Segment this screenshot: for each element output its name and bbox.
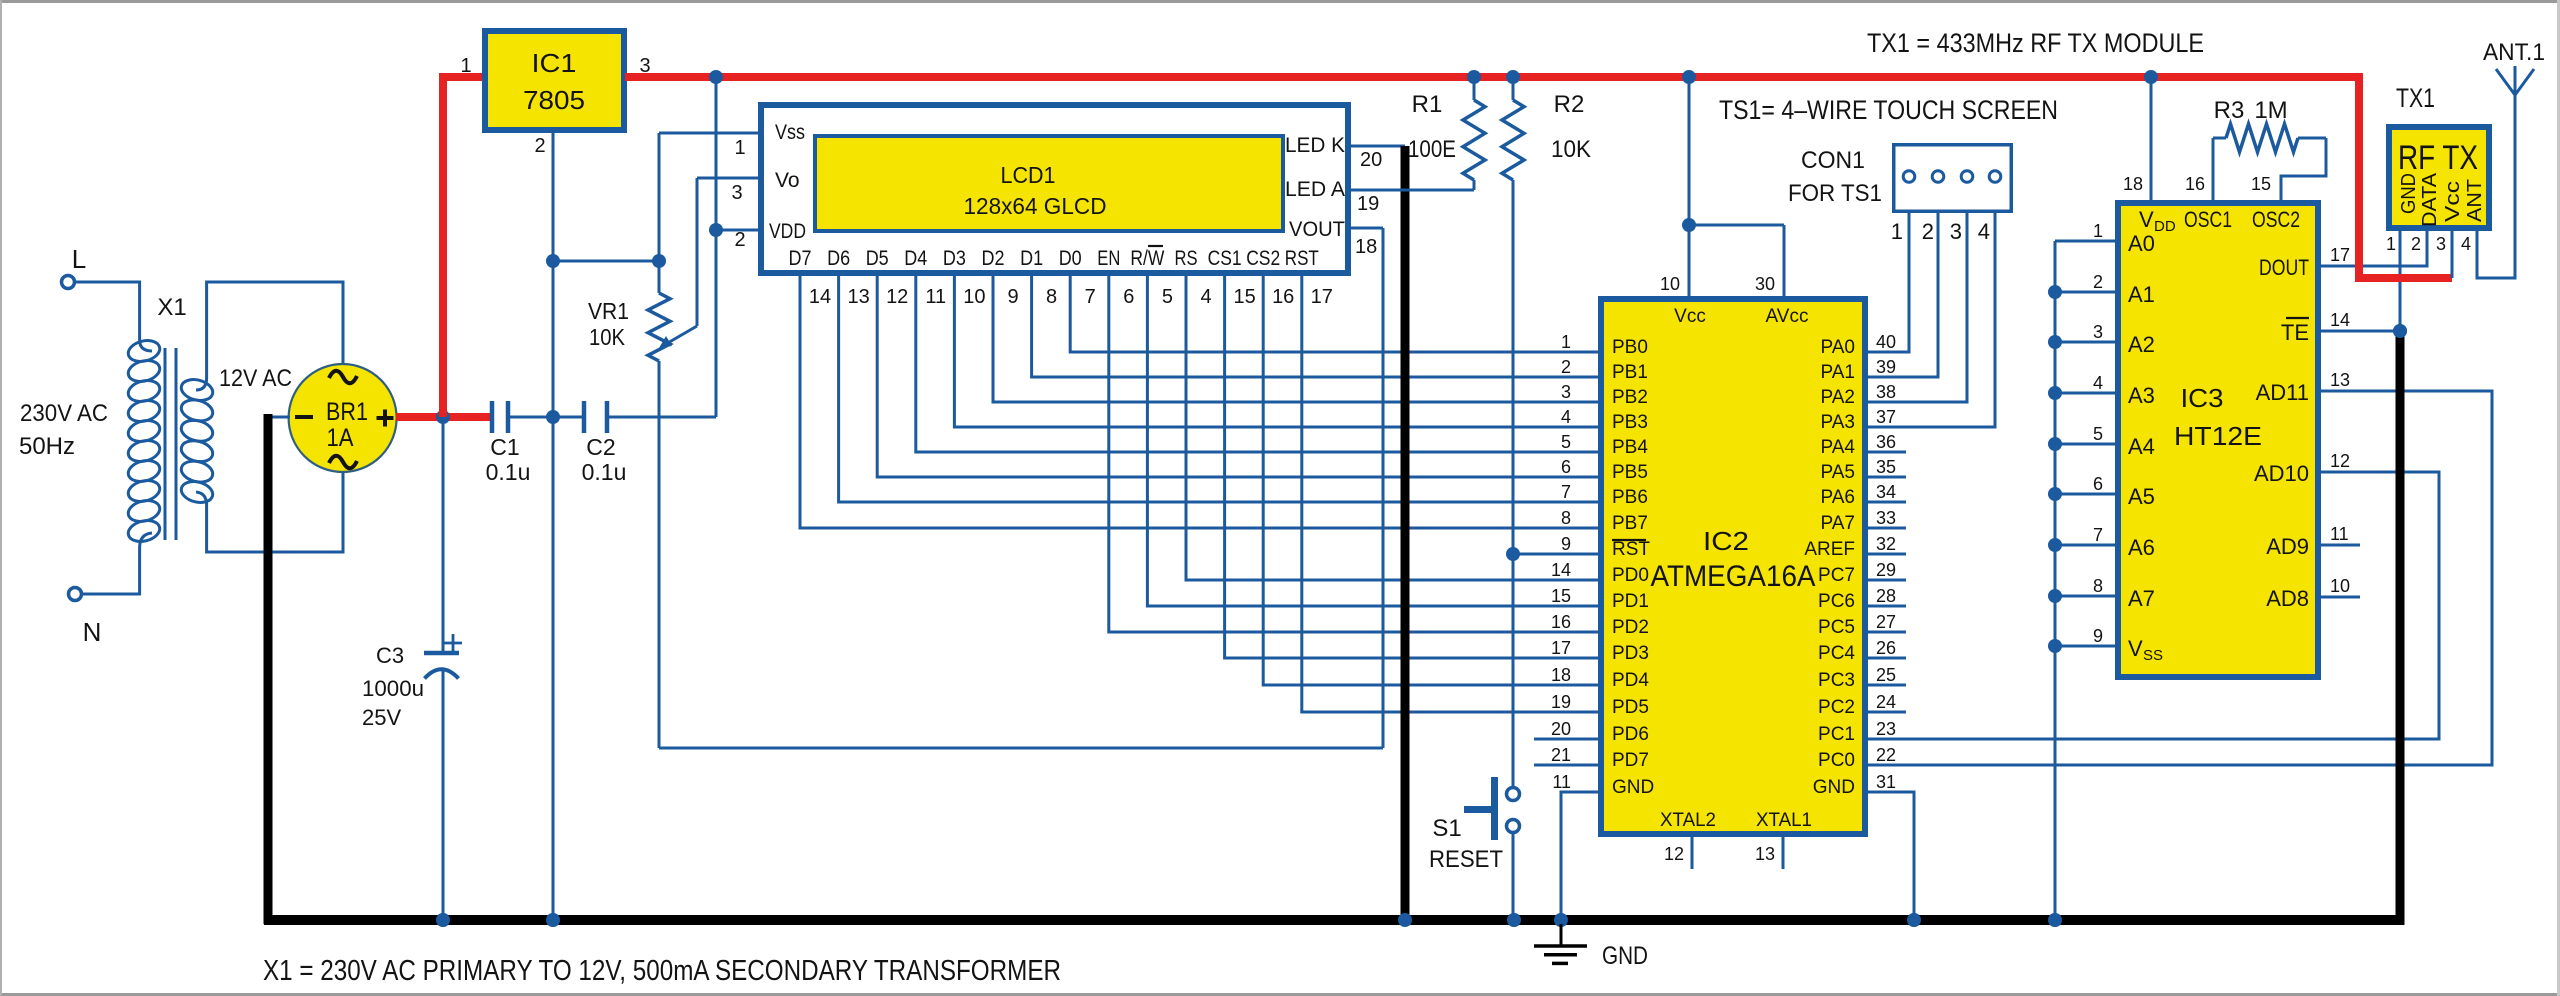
- svg-text:ATMEGA16A: ATMEGA16A: [1651, 560, 1816, 593]
- junction bus at gnd rail: [2048, 913, 2062, 927]
- ground wire vertical from LED K (black): [1401, 146, 1410, 920]
- junction TE gnd: [2393, 324, 2407, 338]
- svg-text:PD1: PD1: [1612, 591, 1649, 612]
- svg-text:PD2: PD2: [1612, 617, 1649, 638]
- svg-text:17: 17: [2330, 245, 2350, 265]
- capacitor C1: [486, 401, 553, 485]
- wire TX1 GND pin to TE node (blue): [2399, 231, 2402, 331]
- svg-text:Vo: Vo: [775, 169, 800, 192]
- svg-text:18: 18: [2123, 174, 2143, 194]
- svg-text:2: 2: [2093, 272, 2103, 292]
- svg-text:4: 4: [2093, 373, 2103, 393]
- svg-text:C3: C3: [376, 643, 404, 668]
- svg-text:D2: D2: [982, 247, 1005, 270]
- svg-text:SS: SS: [2143, 647, 2163, 664]
- svg-text:XTAL2: XTAL2: [1660, 810, 1716, 831]
- encoder IC3 HT12E: [2118, 203, 2318, 677]
- wire RST node to IC2 pin 9: [1513, 553, 1601, 556]
- svg-text:14: 14: [809, 286, 831, 308]
- svg-text:1000u: 1000u: [362, 676, 424, 701]
- svg-text:18: 18: [1551, 665, 1571, 685]
- resistor R2 10K: [1502, 77, 1591, 554]
- svg-text:PB1: PB1: [1612, 362, 1648, 383]
- junction bus A3: [2048, 386, 2062, 400]
- junction +5V rail at IC3 VDD: [2144, 70, 2158, 84]
- svg-text:1: 1: [1891, 219, 1903, 244]
- svg-text:PB0: PB0: [1612, 337, 1648, 358]
- junction gnd rail IC2 pin11: [1554, 913, 1568, 927]
- wire IC3 A4 to bus: [2055, 443, 2118, 446]
- junction TE on gnd line (redraw): [2393, 324, 2407, 338]
- svg-text:16: 16: [1272, 286, 1294, 308]
- svg-text:LCD1: LCD1: [1001, 162, 1056, 188]
- junction BR1+ node: [436, 410, 450, 424]
- ground rail (black): [264, 915, 2404, 925]
- svg-text:23: 23: [1876, 719, 1896, 739]
- bridge rectifier BR1: [289, 364, 397, 472]
- svg-text:7: 7: [1561, 482, 1571, 502]
- svg-text:12V AC: 12V AC: [219, 365, 292, 392]
- svg-text:10K: 10K: [1551, 136, 1591, 163]
- IC3 right pin labels: [2254, 245, 2350, 611]
- wire CON1 pin4 to IC2 PA3: [1865, 213, 1995, 427]
- wire LCD D5 to PB5: [877, 276, 1601, 477]
- svg-text:D1: D1: [1020, 247, 1043, 270]
- wire IC2 GND pin 11 to rail: [1561, 792, 1601, 920]
- svg-text:A2: A2: [2128, 332, 2155, 357]
- svg-text:OSC2: OSC2: [2252, 207, 2300, 232]
- svg-text:11: 11: [1552, 772, 1571, 792]
- svg-text:15: 15: [2251, 174, 2271, 194]
- svg-text:TX1: TX1: [2396, 83, 2435, 113]
- svg-text:PD4: PD4: [1612, 670, 1649, 691]
- svg-text:AREF: AREF: [1804, 539, 1855, 560]
- svg-text:18: 18: [1355, 236, 1377, 258]
- svg-text:2: 2: [1922, 219, 1934, 244]
- svg-text:7: 7: [2093, 525, 2103, 545]
- wire LCD D6 to PB6: [839, 276, 1601, 502]
- junction gnd rail at black LCD line: [1398, 913, 1412, 927]
- svg-text:16: 16: [2185, 174, 2205, 194]
- svg-text:PA2: PA2: [1820, 387, 1855, 408]
- svg-text:TS1= 4–WIRE TOUCH SCREEN: TS1= 4–WIRE TOUCH SCREEN: [1719, 95, 2058, 125]
- svg-text:AD8: AD8: [2266, 586, 2309, 611]
- svg-text:PC6: PC6: [1818, 591, 1855, 612]
- wire LCD D4 to PB4: [916, 276, 1601, 452]
- junction R2 top on +5V rail: [1506, 70, 1520, 84]
- wire IC3 A2 to bus: [2055, 341, 2118, 344]
- wire gnd to VR1 top: [553, 260, 659, 263]
- svg-text:10: 10: [2330, 576, 2350, 596]
- connector CON1 for TS1: [1788, 145, 2011, 244]
- red wire BR1+ up to IC1 pin 1: [439, 73, 484, 417]
- capacitor C3 electrolytic: [362, 417, 462, 920]
- svg-text:VDD: VDD: [769, 220, 806, 243]
- svg-text:PB4: PB4: [1612, 437, 1648, 458]
- junction dots on gnd rail: [436, 913, 2062, 927]
- svg-text:PB3: PB3: [1612, 412, 1648, 433]
- svg-text:10: 10: [1660, 274, 1680, 294]
- microcontroller IC2 ATMEGA16A: [1601, 299, 1865, 834]
- +5V red rail from IC1 pin 3: [625, 73, 2359, 81]
- LCD left pin labels: [731, 121, 806, 251]
- svg-text:DD: DD: [2154, 218, 2176, 235]
- svg-text:A4: A4: [2128, 434, 2155, 459]
- svg-text:50Hz: 50Hz: [19, 433, 75, 460]
- wire A-line ground bus: [2054, 241, 2057, 920]
- svg-text:PD3: PD3: [1612, 643, 1649, 664]
- wire CON1 pin2 to IC2 PA1: [1865, 213, 1938, 377]
- svg-text:28: 28: [1876, 586, 1896, 606]
- svg-text:13: 13: [1755, 844, 1775, 864]
- terminal L: [62, 244, 87, 289]
- svg-text:AD11: AD11: [2256, 380, 2309, 405]
- svg-text:7805: 7805: [523, 85, 585, 115]
- svg-text:RST: RST: [1285, 247, 1319, 270]
- svg-text:39: 39: [1876, 357, 1896, 377]
- svg-text:VOUT: VOUT: [1289, 218, 1345, 241]
- IC3 stub AD8: [2321, 596, 2360, 599]
- svg-text:PD5: PD5: [1612, 697, 1649, 718]
- svg-text:PC7: PC7: [1818, 565, 1855, 586]
- IC2 stubs right nc pins: [1865, 452, 1906, 712]
- junction VDD node: [709, 223, 723, 237]
- wire L to transformer primary: [75, 282, 140, 340]
- wire IC3 AD10 to IC2 PC1: [1865, 472, 2439, 739]
- junction RST node: [1506, 547, 1520, 561]
- wire BR1 plus to node (red): [396, 413, 492, 421]
- svg-text:CS1: CS1: [1208, 247, 1242, 270]
- svg-text:34: 34: [1876, 482, 1896, 502]
- svg-text:230V AC: 230V AC: [20, 400, 108, 427]
- ground wire TX1 GND down (black): [2396, 331, 2405, 925]
- svg-text:IC2: IC2: [1703, 526, 1749, 556]
- wire LCD D3 to PB3: [954, 276, 1601, 427]
- junction IC1 pin2 / VR1 top: [546, 254, 560, 268]
- wire LCD Vss to gnd: [659, 133, 758, 261]
- svg-text:X1 = 230V AC PRIMARY TO 12V, 5: X1 = 230V AC PRIMARY TO 12V, 500mA SECON…: [263, 955, 1061, 987]
- svg-text:6: 6: [1561, 457, 1571, 477]
- svg-text:HT12E: HT12E: [2174, 421, 2262, 451]
- junction gnd rail IC2 pin31: [1907, 913, 1921, 927]
- wire LCD LED A to R1: [1351, 189, 1474, 192]
- junction bus A7: [2048, 589, 2062, 603]
- svg-text:20: 20: [1360, 149, 1382, 171]
- svg-text:PA6: PA6: [1820, 487, 1855, 508]
- svg-text:L: L: [72, 244, 86, 274]
- red wire +5V to TX1 Vcc: [2359, 73, 2452, 278]
- wire IC3 Vss to bus: [2055, 645, 2118, 648]
- wire transformer secondary bottom to BR1: [207, 470, 343, 552]
- svg-text:4: 4: [1561, 407, 1571, 427]
- capacitor C2: [553, 401, 716, 485]
- svg-text:26: 26: [1876, 638, 1896, 658]
- svg-text:4: 4: [1978, 219, 1990, 244]
- IC2 pin labels right: [1804, 332, 1896, 798]
- svg-text:1: 1: [460, 55, 471, 77]
- wire LCD R/W to PD1: [1147, 276, 1601, 606]
- wire LCD D7 to PB7: [800, 276, 1601, 528]
- IC2 top pins Vcc AVcc: [1660, 225, 1784, 296]
- wire IC3 A0 to bus: [2055, 240, 2118, 243]
- svg-text:17: 17: [1551, 638, 1571, 658]
- svg-text:10: 10: [963, 286, 985, 308]
- wire CON1 pin3 to IC2 PA2: [1865, 213, 1967, 402]
- wire LCD EN to PD2: [1109, 276, 1601, 632]
- svg-text:PC4: PC4: [1818, 643, 1855, 664]
- svg-text:PA7: PA7: [1820, 513, 1855, 534]
- junction C3 gnd: [436, 913, 450, 927]
- svg-text:128x64 GLCD: 128x64 GLCD: [964, 193, 1107, 219]
- svg-text:7: 7: [1085, 286, 1096, 308]
- svg-text:Vcc: Vcc: [1674, 306, 1706, 327]
- svg-text:D3: D3: [943, 247, 966, 270]
- svg-text:N: N: [83, 617, 102, 647]
- svg-text:A3: A3: [2128, 383, 2155, 408]
- svg-text:5: 5: [1162, 286, 1173, 308]
- svg-text:19: 19: [1551, 692, 1571, 712]
- svg-text:ANT.1: ANT.1: [2483, 39, 2545, 66]
- wire LCD D0 to PB0: [1070, 276, 1601, 352]
- svg-text:5: 5: [1561, 432, 1571, 452]
- svg-text:AD9: AD9: [2266, 534, 2309, 559]
- svg-text:X1: X1: [157, 294, 186, 321]
- wire IC3 DOUT to TX1 DATA: [2321, 231, 2427, 266]
- svg-text:ANT: ANT: [2464, 179, 2486, 222]
- svg-text:33: 33: [1876, 508, 1896, 528]
- junction bus A6: [2048, 538, 2062, 552]
- svg-text:1: 1: [1561, 332, 1571, 352]
- svg-text:TX1 = 433MHz RF TX MODULE: TX1 = 433MHz RF TX MODULE: [1867, 28, 2204, 58]
- svg-text:A7: A7: [2128, 586, 2155, 611]
- svg-text:8: 8: [1046, 286, 1057, 308]
- LCD1 module box: [761, 105, 1348, 273]
- svg-text:17: 17: [1311, 286, 1333, 308]
- svg-text:22: 22: [1876, 745, 1896, 765]
- svg-text:24: 24: [1876, 692, 1896, 712]
- junction +5V rail at x716: [709, 70, 723, 84]
- svg-text:Vss: Vss: [775, 121, 805, 144]
- svg-text:3: 3: [1950, 219, 1962, 244]
- svg-text:14: 14: [1551, 560, 1571, 580]
- svg-text:GND: GND: [1602, 942, 1648, 970]
- svg-text:2: 2: [2411, 234, 2421, 254]
- wire transformer secondary top to BR1: [207, 282, 343, 378]
- svg-text:38: 38: [1876, 382, 1896, 402]
- wire LCD CS2 to PD4: [1263, 276, 1601, 685]
- svg-text:3: 3: [2436, 234, 2446, 254]
- svg-text:6: 6: [2093, 474, 2103, 494]
- wire TX1 ANT to antenna: [2477, 95, 2515, 278]
- junction gnd rail at x553: [546, 913, 560, 927]
- svg-text:DATA: DATA: [2419, 172, 2441, 227]
- svg-text:LED K: LED K: [1285, 134, 1345, 157]
- svg-text:11: 11: [925, 286, 946, 308]
- svg-text:GND: GND: [1612, 777, 1654, 798]
- svg-text:V: V: [2128, 636, 2143, 661]
- regulator IC1 7805: [485, 31, 624, 130]
- wire IC3 A1 to bus: [2055, 291, 2118, 294]
- junction bus A5: [2048, 487, 2062, 501]
- svg-text:3: 3: [1561, 382, 1571, 402]
- svg-text:37: 37: [1876, 407, 1896, 427]
- wire IC1 pin 2 ground vertical: [552, 133, 555, 920]
- svg-text:AD10: AD10: [2254, 461, 2309, 486]
- svg-text:1: 1: [2386, 234, 2396, 254]
- wire LCD RS to PD0: [1186, 276, 1601, 580]
- svg-text:EN: EN: [1097, 247, 1120, 270]
- svg-text:1: 1: [734, 137, 745, 159]
- svg-text:A1: A1: [2128, 282, 2155, 307]
- svg-text:8: 8: [1561, 508, 1571, 528]
- label 12V AC: [219, 365, 292, 392]
- svg-text:PB2: PB2: [1612, 387, 1648, 408]
- junction bus A2: [2048, 335, 2062, 349]
- svg-text:30: 30: [1755, 274, 1775, 294]
- junction R1 top on +5V rail: [1467, 70, 1481, 84]
- svg-text:RESET: RESET: [1429, 846, 1503, 873]
- wire IC3 A6 to bus: [2055, 544, 2118, 547]
- wire IC3 A3 to bus: [2055, 392, 2118, 395]
- svg-text:16: 16: [1551, 612, 1571, 632]
- svg-text:31: 31: [1876, 772, 1896, 792]
- svg-text:A0: A0: [2128, 231, 2155, 256]
- svg-text:D0: D0: [1059, 247, 1082, 270]
- antenna ANT.1: [2483, 39, 2545, 95]
- svg-text:BR1: BR1: [326, 398, 368, 426]
- svg-text:TE: TE: [2281, 320, 2309, 345]
- svg-text:PC2: PC2: [1818, 697, 1855, 718]
- svg-text:32: 32: [1876, 534, 1896, 554]
- svg-text:100E: 100E: [1408, 136, 1456, 163]
- wire IC3 A7 to bus: [2055, 595, 2118, 598]
- wire LCD RST to PD5: [1302, 276, 1601, 712]
- svg-text:PD7: PD7: [1612, 750, 1649, 771]
- svg-text:DOUT: DOUT: [2259, 255, 2309, 280]
- junction bus A4: [2048, 437, 2062, 451]
- wire R2 bottom to switch S1: [1512, 554, 1515, 787]
- ground symbol: [1534, 924, 1648, 970]
- svg-text:29: 29: [1876, 560, 1896, 580]
- svg-text:6: 6: [1123, 286, 1134, 308]
- transformer X1: [126, 294, 215, 548]
- svg-text:0.1u: 0.1u: [582, 459, 627, 485]
- svg-text:CS2: CS2: [1246, 247, 1280, 270]
- wire IC2 GND pin 31 to rail: [1865, 792, 1914, 920]
- svg-text:A5: A5: [2128, 484, 2155, 509]
- svg-text:PC1: PC1: [1818, 724, 1855, 745]
- IC3 top pin labels: [2123, 174, 2300, 235]
- wire +5V rail to IC3 VDD: [2150, 77, 2153, 200]
- junction Vcc branch: [1682, 218, 1696, 232]
- svg-text:1A: 1A: [327, 424, 354, 452]
- junction bus A1: [2048, 285, 2062, 299]
- svg-text:13: 13: [847, 286, 869, 308]
- svg-text:R2: R2: [1554, 91, 1585, 118]
- svg-text:PB7: PB7: [1612, 513, 1648, 534]
- svg-text:1M: 1M: [2254, 97, 2287, 124]
- svg-text:0.1u: 0.1u: [486, 459, 531, 485]
- svg-text:PA1: PA1: [1820, 362, 1855, 383]
- svg-text:9: 9: [2093, 626, 2103, 646]
- wire VR1 wiper to LCD Vo: [697, 178, 758, 326]
- wire IC3 TE to ground line: [2321, 330, 2400, 333]
- svg-text:VR1: VR1: [588, 298, 629, 324]
- svg-text:8: 8: [2093, 576, 2103, 596]
- svg-text:14: 14: [2330, 310, 2350, 330]
- svg-text:4: 4: [1200, 286, 1211, 308]
- svg-text:19: 19: [1357, 193, 1379, 215]
- svg-text:Vcc: Vcc: [2442, 181, 2464, 222]
- svg-text:2: 2: [734, 229, 745, 251]
- svg-text:4: 4: [2461, 234, 2471, 254]
- +5V branch to LCD VDD: [716, 77, 758, 417]
- svg-text:2: 2: [1561, 357, 1571, 377]
- svg-text:3: 3: [731, 182, 742, 204]
- svg-text:IC3: IC3: [2181, 383, 2224, 413]
- svg-text:PA5: PA5: [1820, 462, 1855, 483]
- ground wire left vertical (black): [264, 414, 273, 924]
- svg-text:V: V: [2139, 207, 2154, 232]
- svg-text:12: 12: [886, 286, 908, 308]
- resistor R3 1M with OSC pins: [2213, 97, 2326, 200]
- wire S1 to ground rail: [1512, 833, 1515, 920]
- wire +5V rail to IC2 Vcc: [1688, 77, 1691, 225]
- label 230V AC 50Hz: [19, 400, 108, 460]
- svg-text:C1: C1: [490, 434, 519, 460]
- svg-text:RF TX: RF TX: [2398, 139, 2478, 177]
- svg-text:20: 20: [1551, 719, 1571, 739]
- wire N to transformer primary: [82, 548, 140, 594]
- terminal N: [69, 588, 102, 648]
- svg-text:12: 12: [1664, 844, 1684, 864]
- svg-text:15: 15: [1233, 286, 1255, 308]
- svg-text:12: 12: [2330, 451, 2350, 471]
- svg-text:S1: S1: [1432, 815, 1461, 842]
- wire LCD LED K to ground line: [1351, 145, 1405, 148]
- junction VR1 top: [652, 254, 666, 268]
- svg-text:1: 1: [2093, 221, 2103, 241]
- IC2 pin stubs PD6 PD7 (nc): [1534, 739, 1601, 765]
- svg-text:CON1: CON1: [1801, 147, 1865, 174]
- RF module TX1: [2386, 83, 2489, 254]
- svg-text:IC1: IC1: [532, 48, 577, 78]
- svg-text:36: 36: [1876, 432, 1896, 452]
- svg-text:2: 2: [534, 135, 545, 157]
- svg-text:9: 9: [1007, 286, 1018, 308]
- svg-text:PB5: PB5: [1612, 462, 1648, 483]
- svg-text:25: 25: [1876, 665, 1896, 685]
- svg-text:PB6: PB6: [1612, 487, 1648, 508]
- svg-text:10K: 10K: [589, 324, 626, 350]
- IC2 pin labels left: [1551, 332, 1654, 798]
- switch S1 RESET: [1429, 777, 1520, 873]
- svg-text:FOR TS1: FOR TS1: [1788, 180, 1882, 207]
- junction C1-C2 node: [546, 410, 560, 424]
- svg-text:27: 27: [1876, 612, 1896, 632]
- svg-text:R/W: R/W: [1130, 247, 1164, 270]
- svg-text:D7: D7: [789, 247, 812, 270]
- svg-text:A6: A6: [2128, 535, 2155, 560]
- svg-text:5: 5: [2093, 424, 2103, 444]
- junction S1 gnd: [1507, 913, 1521, 927]
- svg-text:11: 11: [2330, 524, 2349, 544]
- junction bus Vss: [2048, 639, 2062, 653]
- svg-text:R3: R3: [2214, 97, 2245, 124]
- svg-text:RS: RS: [1175, 247, 1198, 270]
- wire IC3 AD11 to IC2 PC0: [1865, 391, 2492, 765]
- svg-text:PD0: PD0: [1612, 565, 1649, 586]
